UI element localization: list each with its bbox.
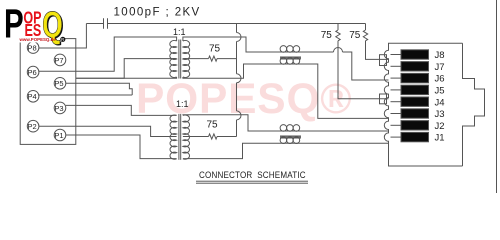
svg-text:75: 75	[349, 30, 361, 41]
title double underline	[196, 180, 308, 182]
wire R4 to center bus	[217, 136, 237, 138]
pin P4	[27, 91, 39, 103]
resistor R3 75	[209, 56, 218, 61]
watermark POPESQ	[136, 76, 352, 124]
resistor R2 75 vertical	[365, 24, 367, 31]
wire T2 bottom-right to lower choke coil B	[183, 143, 277, 158]
RJ45 pin contact J1	[401, 132, 429, 141]
RJ45 pin contact J8	[401, 50, 429, 59]
pin P1	[54, 129, 66, 141]
wire P5 Z-join to P4 row	[66, 83, 132, 95]
svg-text:J8: J8	[435, 50, 445, 61]
wire P4 row joining Z	[39, 94, 132, 96]
node rail from capacitor to resistor R2	[108, 23, 366, 25]
wire P3 to transformer T2 top	[66, 105, 177, 115]
POPESQ logo	[0, 0, 500, 1]
svg-text:P4: P4	[28, 92, 37, 101]
wire P1 to transformer T2 bottom	[66, 135, 177, 159]
transformer T2 left coil	[170, 115, 177, 159]
RJ45 pin contact J2	[401, 121, 429, 130]
wire T1 bottom-right to upper choke coil B	[183, 64, 277, 78]
svg-text:www.POPESQ.de: www.POPESQ.de	[19, 37, 57, 42]
pin P6	[27, 66, 39, 78]
pin P3	[54, 102, 66, 114]
logo registered mark	[60, 37, 65, 42]
RJ45 jack left edge with scallops	[384, 43, 462, 166]
RJ45 pin contact J3	[401, 109, 429, 118]
svg-text:J5: J5	[435, 86, 445, 97]
transformer T1 core	[178, 40, 180, 79]
wire P8 row to capacitor riser	[39, 24, 87, 49]
upper choke coil B	[277, 63, 305, 65]
RJ45 pin contact J5	[401, 85, 429, 94]
svg-text:P6: P6	[28, 68, 37, 77]
wire box stub to T1 center tap	[76, 59, 177, 79]
connector box around P pins	[20, 39, 76, 145]
lower choke coil B	[277, 142, 305, 144]
capacitor C1 left wire	[86, 23, 103, 25]
wire T2 center-right to resistor R4	[183, 136, 209, 138]
svg-text:P5: P5	[54, 79, 63, 88]
transformer T1 left coil	[170, 40, 177, 77]
RJ45 right clip profile	[463, 43, 485, 166]
wire T2 top-right to lower choke coil A	[183, 115, 277, 131]
svg-text:P2: P2	[28, 122, 37, 131]
wire T1 top-right to upper choke coil A	[183, 37, 277, 52]
RJ45 pin contact J6	[401, 73, 429, 82]
wire R3 to center bus	[217, 58, 237, 60]
resistor R1 75 vertical	[337, 24, 339, 31]
svg-text:75: 75	[209, 44, 221, 55]
svg-text:P1: P1	[54, 131, 63, 140]
wire T1 bottom-left stub	[76, 77, 177, 78]
svg-text:J2: J2	[435, 121, 445, 132]
pin P8	[27, 42, 39, 54]
svg-text:R: R	[61, 37, 64, 42]
svg-text:J7: J7	[435, 62, 445, 73]
wire choke A to J2	[305, 130, 389, 132]
frame right border	[496, 0, 498, 193]
transformer T2 core	[178, 114, 180, 160]
wire P6 to transformer T1 top	[39, 37, 177, 71]
center tap bus vertical with hops	[236, 24, 238, 33]
svg-text:P3: P3	[54, 104, 63, 113]
wire choke B to J1	[305, 142, 389, 144]
wire T1 center-right to resistor R3	[183, 58, 209, 60]
transformer T1 right coil	[183, 40, 190, 77]
transformer T2 right coil	[183, 115, 190, 159]
upper choke coil A	[277, 51, 305, 53]
logo white backing	[0, 0, 61, 43]
pin P7	[54, 54, 66, 66]
svg-text:J4: J4	[435, 97, 445, 108]
RJ45 pin contact J7	[401, 62, 429, 71]
title text	[199, 170, 306, 181]
RJ45 pin contact J4	[401, 97, 429, 106]
svg-text:75: 75	[207, 119, 219, 130]
lower choke core	[280, 135, 301, 137]
wire choke A out with hop over R1 drop, to J6	[305, 51, 334, 53]
pin P5	[54, 78, 66, 90]
svg-text:J1: J1	[435, 133, 445, 144]
capacitor C1 plates	[103, 18, 105, 29]
pin P2	[27, 120, 39, 132]
svg-text:P7: P7	[54, 56, 63, 65]
connector entry tab at J8	[380, 55, 387, 66]
connector entry tab at J4	[380, 94, 387, 104]
svg-text:1:1: 1:1	[173, 27, 186, 37]
svg-text:1:1: 1:1	[176, 99, 189, 109]
svg-text:J6: J6	[435, 74, 445, 85]
wire P2 to transformer T2 center tap	[39, 126, 177, 136]
wire choke B out to J3	[305, 64, 389, 118]
svg-text:J3: J3	[435, 109, 445, 120]
upper choke core	[280, 56, 301, 58]
lower choke coil A	[277, 130, 305, 132]
svg-text:75: 75	[321, 30, 333, 41]
svg-text:1000pF ; 2KV: 1000pF ; 2KV	[114, 7, 201, 19]
resistor R4 75	[209, 134, 218, 139]
